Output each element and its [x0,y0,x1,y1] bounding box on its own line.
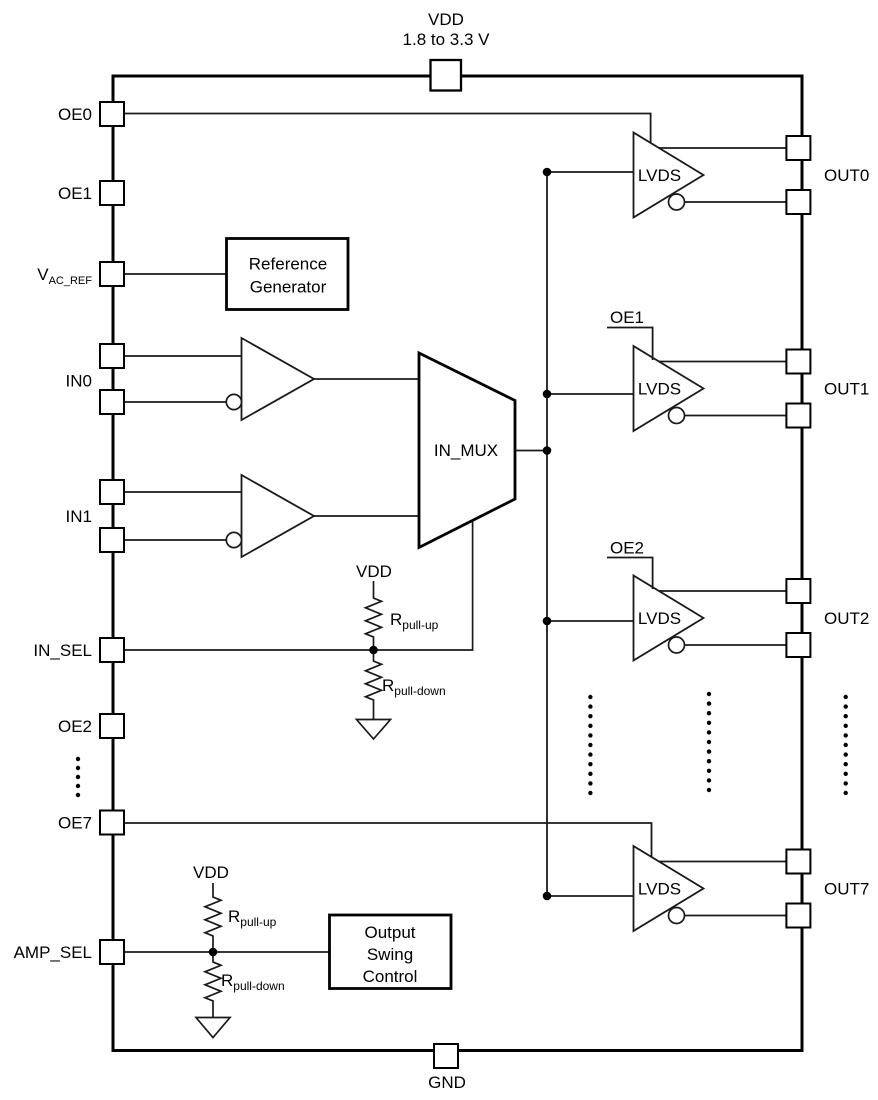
pin AMP_SEL [100,940,124,964]
wire U3 noninverting output [659,590,786,592]
svg-text:LVDS: LVDS [638,380,681,399]
pin OUT1 plus [786,350,810,374]
LVDS driver U3 [634,576,704,661]
svg-text:AMP_SEL: AMP_SEL [14,943,92,962]
pin OE1 [100,181,124,205]
wire buffer A2 output to IN_MUX [314,515,419,517]
pin OUT7 plus [786,850,810,874]
svg-text:IN1: IN1 [66,507,92,526]
pin OE0 [100,102,124,126]
svg-text:OE2: OE2 [58,717,92,736]
junction bus to U2 [543,390,552,399]
resistor Rpull-down IN_SEL [366,650,382,720]
pin IN1 minus [100,528,124,552]
svg-text:OE7: OE7 [58,814,92,833]
svg-text:LVDS: LVDS [638,880,681,899]
pin OUT2 minus [786,633,810,657]
svg-text:VAC_REF: VAC_REF [37,265,92,287]
svg-text:Generator: Generator [250,278,327,297]
wire IN1 inverting input [124,539,227,541]
svg-text:Rpull-up: Rpull-up [390,610,439,632]
pin IN0 minus [100,390,124,414]
svg-text:VDD: VDD [428,10,464,29]
junction IN_SEL divider [369,646,378,655]
wire bus to LVDS U1 input [547,171,634,173]
LVDS driver U1 [634,133,704,218]
pin VAC_REF [100,262,124,286]
svg-text:Rpull-down: Rpull-down [221,971,285,993]
wire IN1 noninverting input [124,491,242,493]
svg-text:GND: GND [428,1073,466,1092]
svg-text:VDD: VDD [356,562,392,581]
junction IN_MUX output [543,446,552,455]
svg-text:OE0: OE0 [58,105,92,124]
svg-text:Swing: Swing [367,945,413,964]
pin OUT2 plus [786,579,810,603]
wire OE0 to LVDS U1 enable [124,114,651,146]
chip boundary [113,76,802,1051]
svg-text:LVDS: LVDS [638,166,681,185]
pin OUT0 minus [786,190,810,214]
pin OUT0 plus [786,136,810,160]
junction bus to U4 [543,892,552,901]
wire signal bus vertical [546,172,548,896]
pin VDD [431,60,462,91]
wire bus to LVDS U3 input [547,620,634,622]
LVDS driver U4 [634,846,704,931]
wire U4 inverting output [685,915,787,917]
wire IN0 noninverting input [124,355,242,357]
wire IN0 inverting input [124,401,227,403]
buffer A2 input IN1 [226,475,314,557]
pin IN1 plus [100,480,124,504]
svg-text:OUT2: OUT2 [824,609,869,628]
pin OE7 [100,811,124,835]
svg-text:Rpull-down: Rpull-down [382,676,446,698]
enable label OE1 for U2 [607,308,654,360]
wire U1 noninverting output [659,147,786,149]
pin IN_SEL [100,638,124,662]
wire U4 noninverting output [659,861,786,863]
svg-text:OE2: OE2 [610,539,644,558]
svg-text:OUT0: OUT0 [824,166,869,185]
mux IN_MUX [419,353,515,548]
junction AMP_SEL divider [209,948,218,957]
pin IN0 plus [100,344,124,368]
ground AMP_SEL divider [196,1018,230,1038]
reference generator block [227,239,349,310]
buffer A1 input IN0 [226,338,314,420]
pin GND [434,1044,458,1068]
pin OUT7 minus [786,904,810,928]
svg-text:VDD: VDD [193,863,229,882]
wire U2 inverting output [685,415,787,417]
ellipsis output column [844,695,848,795]
svg-text:IN0: IN0 [66,372,92,391]
wire IN_MUX output to bus [515,450,547,452]
pin OE2 [100,714,124,738]
wire U1 inverting output [685,201,787,203]
ellipsis bus column [588,695,592,795]
svg-text:Control: Control [363,967,418,986]
svg-text:IN_SEL: IN_SEL [33,641,92,660]
svg-text:Output: Output [364,923,415,942]
wire U3 inverting output [685,644,787,646]
junction bus to U3 [543,617,552,626]
resistor Rpull-up AMP_SEL [205,883,221,952]
wire AMP_SEL to output swing control [124,951,330,953]
LVDS driver U2 [634,346,704,431]
wire bus to LVDS U2 input [547,393,634,395]
wire IN_SEL to IN_MUX select [124,521,473,651]
svg-text:IN_MUX: IN_MUX [434,441,498,460]
svg-text:LVDS: LVDS [638,609,681,628]
enable label OE2 for U3 [607,539,654,590]
pin OUT1 minus [786,404,810,428]
ellipsis driver column [707,692,711,792]
wire VAC_REF to reference generator [124,273,226,275]
svg-text:Reference: Reference [249,255,327,274]
resistor Rpull-up IN_SEL [366,581,382,650]
resistor Rpull-down AMP_SEL [205,952,221,1018]
wire OE7 to LVDS U4 enable [124,823,652,860]
wire U2 noninverting output [659,361,786,363]
wire bus to LVDS U4 input [547,895,634,897]
ground IN_SEL divider [357,720,391,740]
output swing control block [330,915,452,989]
junction bus to U1 [543,168,552,177]
svg-text:OE1: OE1 [58,184,92,203]
svg-text:1.8 to 3.3 V: 1.8 to 3.3 V [403,30,491,49]
svg-text:OUT7: OUT7 [824,880,869,899]
ellipsis OE pins [76,757,80,797]
svg-text:OUT1: OUT1 [824,380,869,399]
svg-text:Rpull-up: Rpull-up [228,907,277,929]
svg-text:OE1: OE1 [610,308,644,327]
wire buffer A1 output to IN_MUX [314,378,419,380]
